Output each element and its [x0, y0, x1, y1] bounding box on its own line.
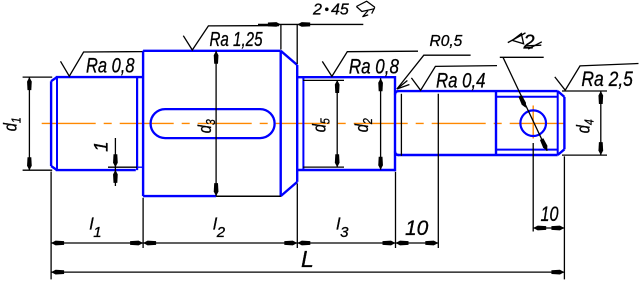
svg-text:10: 10 — [405, 217, 429, 240]
svg-text:Ra 0,8: Ra 0,8 — [349, 55, 399, 78]
svg-text:2: 2 — [523, 32, 535, 54]
svg-text:L: L — [301, 246, 314, 272]
svg-text:2: 2 — [312, 1, 322, 18]
svg-text:Ra 0,4: Ra 0,4 — [436, 70, 486, 93]
svg-text:Ra 1,25: Ra 1,25 — [210, 29, 264, 51]
svg-text:Ra 0,8: Ra 0,8 — [86, 54, 135, 77]
svg-text:Ra 2,5: Ra 2,5 — [581, 68, 633, 91]
svg-text:45: 45 — [331, 1, 349, 18]
svg-text:10: 10 — [541, 203, 559, 226]
svg-text:1: 1 — [91, 141, 112, 152]
svg-text:R0,5: R0,5 — [430, 33, 463, 50]
